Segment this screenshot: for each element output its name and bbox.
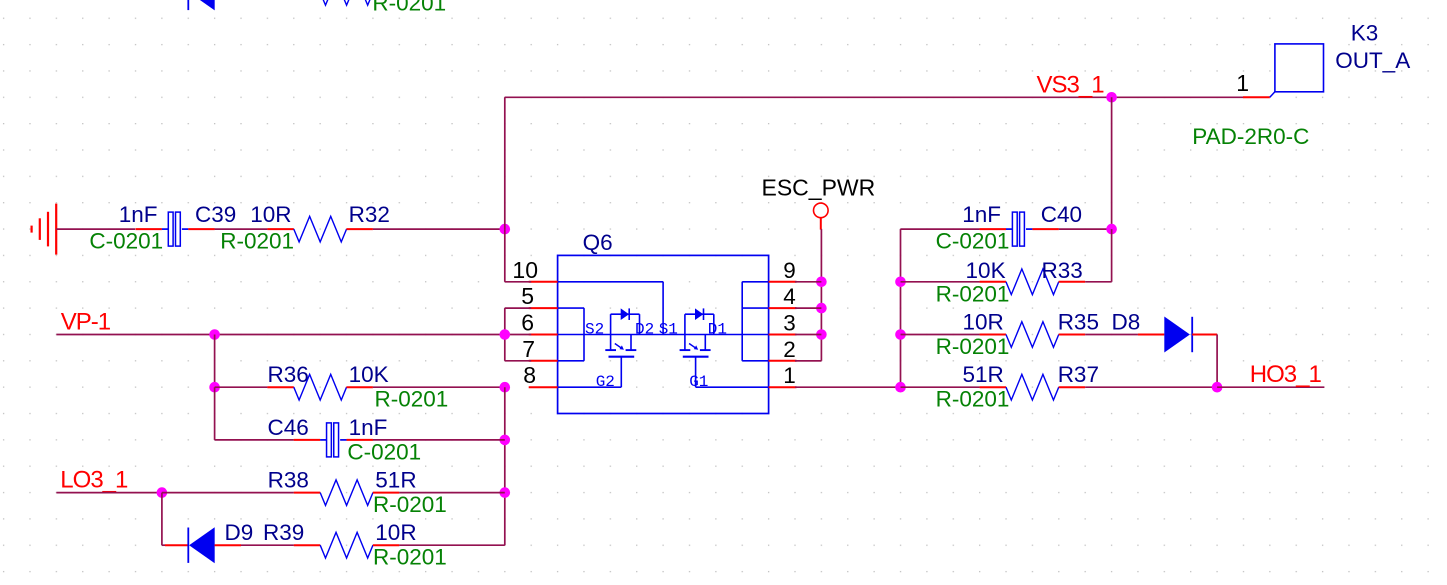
svg-text:C39: C39 [195, 202, 236, 227]
junction node [895, 329, 906, 340]
wire [795, 334, 821, 336]
wire [373, 228, 505, 230]
svg-text:10: 10 [512, 257, 538, 283]
transistor Q6 (dual MOSFET) [512, 230, 796, 414]
junction node [209, 329, 220, 340]
wire left bus [504, 387, 506, 545]
svg-text:R-0201: R-0201 [936, 334, 1010, 359]
svg-text:D9: D9 [225, 520, 254, 545]
svg-text:D8: D8 [1112, 310, 1141, 335]
wire [505, 229, 531, 282]
wire ESC_PWR vertical [795, 229, 821, 361]
resistor R32 [220, 202, 390, 254]
svg-text:G1: G1 [689, 373, 708, 391]
junction node [895, 277, 906, 288]
wire VP-1 bracket [505, 308, 531, 361]
diode D8 [1112, 310, 1218, 353]
wire [215, 228, 268, 230]
svg-text:R39: R39 [263, 520, 304, 545]
svg-text:Q6: Q6 [583, 230, 613, 255]
wire [795, 307, 821, 309]
wire [373, 439, 505, 441]
wire [901, 386, 980, 388]
junction node [500, 487, 511, 498]
svg-text:K3: K3 [1351, 20, 1379, 45]
svg-text:HO3_1: HO3_1 [1250, 361, 1322, 388]
svg-text:1nF: 1nF [119, 202, 158, 227]
junction node [157, 487, 168, 498]
svg-text:R-0201: R-0201 [936, 387, 1010, 412]
svg-text:VS3_1: VS3_1 [1037, 71, 1105, 98]
junction node [500, 224, 511, 235]
svg-text:VP-1: VP-1 [61, 309, 111, 336]
wire [901, 228, 980, 230]
svg-text:R-0201: R-0201 [373, 545, 447, 570]
svg-text:10R: 10R [963, 310, 1004, 335]
wire VS3_1 [505, 96, 1243, 98]
svg-text:G2: G2 [596, 373, 615, 391]
svg-text:1: 1 [783, 363, 796, 388]
resistor R37 [936, 362, 1099, 412]
svg-text:R-0201: R-0201 [373, 492, 447, 517]
capacitor C46 [268, 415, 422, 465]
junction node [816, 277, 827, 288]
power symbol ESC_PWR [762, 174, 876, 229]
net label VS3_1 [1037, 71, 1105, 98]
svg-text:10R: 10R [250, 202, 291, 227]
svg-text:C-0201: C-0201 [936, 229, 1010, 254]
wire [215, 387, 294, 440]
wire [1085, 386, 1217, 388]
wire [241, 544, 294, 546]
wire [1059, 228, 1112, 230]
capacitor C39 [89, 202, 236, 254]
wire right bus [900, 229, 902, 387]
svg-text:D1: D1 [708, 320, 727, 338]
svg-text:C-0201: C-0201 [347, 439, 421, 464]
resistor R39 [263, 520, 447, 570]
svg-text:R35: R35 [1058, 310, 1099, 335]
svg-text:R-0201: R-0201 [220, 229, 294, 254]
wire [162, 493, 165, 546]
wire [1085, 334, 1138, 336]
wire [399, 544, 505, 546]
wire VP-1 [56, 334, 504, 336]
svg-text:6: 6 [521, 310, 534, 336]
resistor R35 [936, 310, 1099, 360]
svg-text:5: 5 [521, 283, 534, 309]
junction node [895, 382, 906, 393]
svg-text:R-0201: R-0201 [936, 281, 1010, 306]
wire [373, 386, 505, 388]
svg-text:51R: 51R [375, 468, 416, 493]
footprint label R-0201 (partial, top edge) [372, 0, 446, 16]
svg-text:S1: S1 [659, 320, 678, 338]
net label LO3_1 [60, 467, 128, 494]
svg-text:S2: S2 [585, 320, 604, 338]
wire [901, 334, 980, 336]
svg-text:R-0201: R-0201 [372, 0, 446, 16]
junction node [1106, 224, 1117, 235]
wire [1217, 386, 1324, 388]
svg-text:R37: R37 [1058, 362, 1099, 387]
svg-text:R33: R33 [1042, 258, 1083, 283]
svg-text:9: 9 [783, 258, 796, 283]
wire [1111, 97, 1113, 229]
svg-text:C46: C46 [268, 415, 309, 440]
junction node [816, 303, 827, 314]
svg-text:R36: R36 [268, 362, 309, 387]
junction node [209, 382, 220, 393]
junction node [816, 329, 827, 340]
net label HO3_1 [1250, 361, 1322, 388]
svg-text:OUT_A: OUT_A [1335, 48, 1410, 73]
diode D9 [165, 520, 253, 563]
svg-text:4: 4 [783, 284, 796, 309]
wire HO3_1 from pin 1 [795, 386, 901, 388]
svg-text:1nF: 1nF [962, 202, 1001, 227]
svg-text:10K: 10K [966, 258, 1006, 283]
junction node [500, 382, 511, 393]
ground (earth, rotated) [32, 204, 57, 255]
svg-text:LO3_1: LO3_1 [60, 467, 128, 494]
junction node [500, 329, 511, 340]
wire [399, 492, 505, 494]
wire [56, 228, 135, 230]
wire [1085, 229, 1111, 282]
svg-text:C40: C40 [1041, 202, 1082, 227]
svg-text:10K: 10K [349, 362, 389, 387]
wire [215, 386, 268, 388]
capacitor C40 [936, 202, 1082, 254]
svg-text:1nF: 1nF [349, 415, 388, 440]
svg-text:R32: R32 [349, 202, 390, 227]
svg-text:R-0201: R-0201 [375, 387, 449, 412]
wire [795, 281, 821, 283]
svg-text:10R: 10R [375, 520, 416, 545]
svg-text:D2: D2 [635, 320, 654, 338]
svg-text:3: 3 [783, 311, 796, 336]
connector K3 [1192, 20, 1410, 149]
resistor R33 [936, 258, 1086, 307]
wire [162, 492, 294, 494]
junction node [500, 435, 511, 446]
resistor R? zigzag (partial, top edge) [320, 0, 399, 5]
svg-text:8: 8 [523, 362, 536, 388]
svg-text:1: 1 [1236, 70, 1249, 96]
wire [214, 335, 216, 388]
wire [1216, 335, 1218, 388]
wire [504, 97, 506, 229]
net label VP-1 [61, 309, 111, 336]
junction node [1106, 92, 1117, 103]
svg-text:PAD-2R0-C: PAD-2R0-C [1192, 124, 1309, 149]
wire [901, 281, 980, 283]
svg-text:51R: 51R [963, 362, 1004, 387]
wire LO3_1 [56, 492, 161, 494]
diode D? (partial, top edge) [188, 0, 214, 10]
resistor R38 [268, 468, 447, 517]
svg-text:7: 7 [522, 336, 535, 362]
resistor R36 [267, 362, 448, 412]
svg-text:2: 2 [783, 337, 796, 362]
wire [795, 360, 821, 362]
svg-text:R38: R38 [268, 468, 309, 493]
junction node [1212, 382, 1223, 393]
svg-text:C-0201: C-0201 [89, 229, 163, 254]
svg-text:ESC_PWR: ESC_PWR [762, 174, 876, 200]
